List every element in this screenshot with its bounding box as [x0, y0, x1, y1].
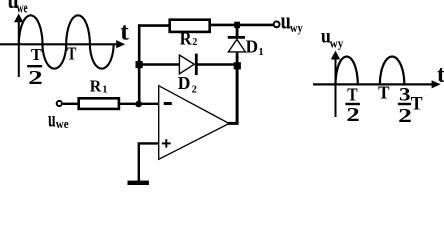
svg-text:t: t: [120, 19, 129, 46]
label u_we (input terminal): [48, 106, 69, 131]
output waveform vertical axis: [331, 51, 340, 118]
svg-text:we: we: [17, 0, 28, 16]
input terminal u_we: [57, 101, 62, 106]
node at D1 bottom / D2 branch (right): [234, 62, 241, 69]
svg-text:2: 2: [346, 105, 359, 126]
wire D1 anode down to lower node: [236, 52, 239, 66]
node at D1 top / output wire: [234, 22, 240, 28]
resistor R2: [170, 20, 210, 32]
svg-text:wy: wy: [330, 35, 344, 50]
resistor R1: [79, 98, 119, 109]
label R1: [90, 77, 108, 96]
output waveform horizontal axis: [313, 80, 441, 88]
op-amp non-inverting input marker (+): [162, 139, 171, 147]
diode D2 (triangle): [179, 55, 194, 74]
output terminal u_wy: [274, 22, 280, 28]
top feedback wire (left segment to R2): [138, 24, 169, 27]
svg-text:D: D: [246, 36, 258, 56]
svg-text:T: T: [411, 93, 423, 114]
label u_wy (output waveform axis): [321, 26, 344, 51]
svg-text:T: T: [31, 45, 42, 64]
svg-text:T: T: [378, 83, 390, 103]
wire R1 to inverting input: [120, 103, 159, 105]
input sine wave u_we(t): [19, 15, 114, 68]
svg-text:T: T: [347, 85, 357, 105]
svg-text:T: T: [67, 44, 76, 64]
svg-text:we: we: [56, 116, 69, 131]
wire inverting node up to feedback network: [138, 24, 141, 104]
input waveform horizontal axis: [0, 40, 125, 48]
label 3/2 T (output waveform axis): [398, 85, 423, 127]
svg-text:2: 2: [192, 37, 197, 48]
svg-text:u: u: [48, 106, 56, 131]
D2 branch wire (left segment): [139, 63, 179, 65]
label R2: [180, 28, 198, 48]
wire node to D1 cathode: [236, 25, 239, 37]
svg-text:1: 1: [258, 47, 263, 58]
label T/2 (output waveform axis): [345, 85, 360, 127]
node at inverting input: [135, 101, 142, 108]
wire input terminal to R1: [63, 103, 78, 105]
node at D2 branch (left): [136, 61, 143, 68]
svg-text:D: D: [178, 73, 191, 93]
label D1: [246, 36, 264, 58]
svg-text:2: 2: [192, 84, 197, 95]
top feedback wire (R2 to output terminal): [211, 24, 273, 27]
diode D1 (triangle): [228, 39, 245, 52]
wire non-inverting input to ground: [139, 143, 159, 181]
output waveform second half-sine pulse: [380, 57, 404, 85]
label u_wy (output terminal): [281, 8, 304, 35]
D2 branch wire (right segment): [196, 63, 237, 65]
svg-text:R: R: [90, 77, 102, 96]
label D2: [178, 73, 197, 95]
svg-text:t: t: [437, 61, 444, 88]
ground: [128, 181, 149, 185]
label u_we (input waveform axis): [8, 0, 28, 16]
op-amp inverting input marker (-): [164, 102, 172, 105]
op-amp U1 (triangle): [159, 86, 229, 160]
input waveform vertical axis: [14, 14, 23, 78]
diode D1 (cathode bar): [228, 36, 245, 39]
svg-text:2: 2: [28, 67, 43, 89]
svg-text:R: R: [180, 28, 193, 48]
svg-text:1: 1: [102, 85, 107, 96]
svg-text:3: 3: [399, 85, 411, 106]
diode D2 (cathode bar): [195, 54, 198, 75]
wire lower node down to op-amp output: [228, 66, 237, 123]
label T/2 (input waveform axis): [27, 45, 43, 89]
output waveform first half-sine pulse: [336, 57, 358, 85]
svg-text:wy: wy: [290, 21, 303, 35]
